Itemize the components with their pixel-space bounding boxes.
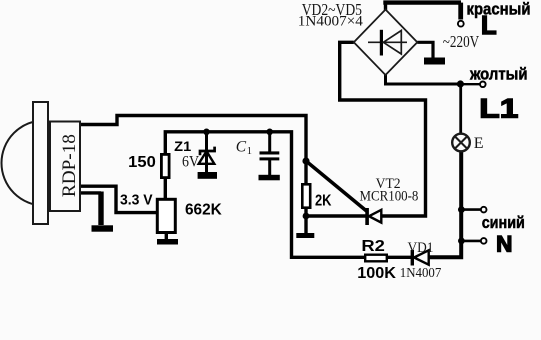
svg-text:RDP-18: RDP-18 bbox=[60, 134, 80, 197]
svg-text:Z1: Z1 bbox=[174, 138, 191, 154]
svg-text:L: L bbox=[481, 12, 497, 40]
svg-text:синий: синий bbox=[482, 213, 525, 232]
svg-text:1N4007×4: 1N4007×4 bbox=[298, 13, 363, 30]
svg-text:2K: 2K bbox=[315, 193, 332, 210]
svg-text:662K: 662K bbox=[185, 202, 222, 219]
svg-text:E: E bbox=[474, 135, 484, 152]
svg-text:красный: красный bbox=[467, 0, 531, 19]
svg-text:жолтый: жолтый bbox=[469, 65, 527, 84]
svg-text:100K: 100K bbox=[357, 265, 396, 282]
svg-text:MCR100-8: MCR100-8 bbox=[360, 189, 419, 205]
svg-text:L1: L1 bbox=[479, 94, 518, 124]
svg-text:R2: R2 bbox=[361, 238, 385, 255]
svg-text:1N4007: 1N4007 bbox=[400, 266, 442, 281]
svg-text:C: C bbox=[236, 138, 247, 155]
svg-text:N: N bbox=[496, 232, 512, 257]
svg-text:3.3 V: 3.3 V bbox=[120, 192, 153, 208]
svg-text:150: 150 bbox=[128, 154, 156, 171]
svg-text:VD1: VD1 bbox=[408, 240, 434, 256]
svg-text:6V: 6V bbox=[182, 153, 200, 170]
svg-text:1: 1 bbox=[247, 146, 252, 157]
svg-text:~220V: ~220V bbox=[443, 32, 479, 51]
